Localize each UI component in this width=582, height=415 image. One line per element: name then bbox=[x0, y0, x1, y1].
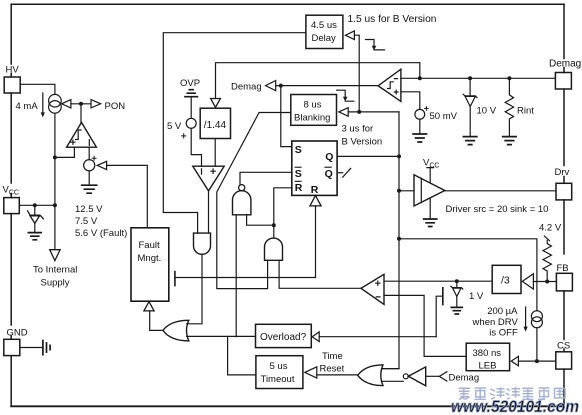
voltage source V1 12.5V/7.5V/5.6V bbox=[84, 160, 95, 171]
ground below V1 bbox=[82, 185, 97, 193]
svg-text:OVP: OVP bbox=[180, 78, 200, 89]
resistor R2 FB pullup with 4.2V tick bbox=[544, 236, 549, 241]
pin FB bbox=[556, 273, 572, 291]
AND gate A1 (pointing down) bbox=[194, 233, 211, 254]
wire A2 right input from CS comparator output bbox=[279, 260, 361, 288]
svg-text:Supply: Supply bbox=[41, 277, 70, 288]
svg-text:www.520101.com: www.520101.com bbox=[451, 398, 579, 415]
OR gate O1 (mirrored, apex left) bbox=[163, 320, 189, 341]
ground below D2 bbox=[463, 137, 476, 145]
pin VCC bbox=[4, 198, 19, 214]
zener D2 10V on demag pin bbox=[469, 78, 471, 96]
wire A2 output to Rbar node bbox=[273, 225, 275, 238]
wire Demag node to /1.44 input bbox=[216, 63, 420, 99]
wire comparator plus input tap bbox=[55, 147, 75, 157]
bar terminal on fault bus bbox=[174, 272, 176, 286]
triangle LEB input bbox=[511, 356, 518, 365]
svg-text:/1.44: /1.44 bbox=[204, 120, 227, 131]
svg-text:PON: PON bbox=[105, 101, 126, 112]
wire U2 output to A1 input bbox=[208, 191, 210, 233]
svg-text:4 mA: 4 mA bbox=[16, 101, 39, 112]
triangle delay input bbox=[345, 31, 354, 40]
svg-text:8 us: 8 us bbox=[304, 100, 322, 111]
ground at GND pin (rotated) bbox=[20, 347, 43, 349]
wire 200uA source to CS wire bbox=[536, 328, 538, 362]
wire overload input from sense bar bbox=[319, 336, 436, 338]
wire O2 lower input from NOT gate bbox=[382, 380, 404, 382]
resistor Rint bbox=[505, 78, 513, 136]
wire OR1 output to fault input bbox=[150, 311, 163, 331]
svg-text:Q: Q bbox=[325, 151, 333, 163]
box 4.5 us Delay bbox=[306, 15, 343, 48]
op-amp U1 VCC management comparator bbox=[67, 122, 97, 147]
wire timeout output to overload net bbox=[228, 336, 256, 375]
box SR latch bbox=[292, 141, 337, 195]
svg-text:Demag: Demag bbox=[231, 82, 262, 93]
falling edge icon near delay bbox=[366, 40, 385, 50]
wire N1 left input down to overload net bbox=[235, 215, 237, 337]
ground below D1 bbox=[28, 233, 41, 240]
svg-text:Time: Time bbox=[322, 351, 343, 362]
triangle latch R input bbox=[310, 196, 321, 206]
triangle /3 input bbox=[522, 274, 533, 289]
voltage source V2 5V bbox=[186, 118, 196, 128]
wire blanking input from Q line bbox=[348, 111, 399, 113]
wire U4 plus input from /3 output bbox=[384, 280, 492, 282]
wire V1 to ground bbox=[88, 171, 90, 185]
wire OVP ground to 5V source bbox=[190, 97, 192, 119]
svg-text:S: S bbox=[295, 168, 302, 180]
box Fault Mngt bbox=[131, 228, 169, 301]
triangle PON output bbox=[91, 100, 101, 108]
wire delay input from Q line bbox=[354, 35, 359, 112]
triangle internal Demag signal bbox=[266, 81, 276, 91]
wire PON node bbox=[71, 103, 91, 105]
svg-text:/3: /3 bbox=[501, 275, 510, 287]
triangle V1 select input bbox=[97, 161, 106, 169]
watermark chinese characters bbox=[459, 387, 566, 399]
svg-text:B Version: B Version bbox=[342, 137, 383, 148]
current source I2 200uA (two circles) bbox=[531, 311, 542, 322]
zener D3 1V bbox=[451, 286, 463, 289]
wire NOT input bbox=[426, 375, 440, 377]
pin CS bbox=[556, 352, 572, 369]
svg-text:Driver src = 20 sink = 10: Driver src = 20 sink = 10 bbox=[446, 204, 549, 215]
triangle Fault Mngt bottom input bbox=[144, 302, 154, 311]
svg-text:GND: GND bbox=[7, 328, 28, 339]
svg-text:Fault: Fault bbox=[139, 240, 160, 251]
svg-text:Demag: Demag bbox=[549, 59, 581, 70]
svg-text:To Internal: To Internal bbox=[33, 264, 77, 275]
pin GND bbox=[4, 339, 20, 355]
wire O2 upper input from Q line bbox=[382, 368, 400, 370]
wire OR2 output to timeout input bbox=[317, 374, 358, 376]
box 380 ns LEB bbox=[466, 343, 509, 371]
pin Drv bbox=[556, 183, 572, 200]
svg-text:5.6 V (Fault): 5.6 V (Fault) bbox=[75, 228, 127, 239]
svg-text:4.2 V: 4.2 V bbox=[539, 222, 562, 233]
box Overload? bbox=[256, 324, 312, 347]
svg-text:R: R bbox=[295, 182, 303, 194]
VCC tick above driver bbox=[427, 168, 434, 183]
ground above 5V reference (OVP) bbox=[185, 90, 197, 97]
svg-text:380 ns: 380 ns bbox=[473, 348, 502, 359]
voltage source V3 50 mV bbox=[415, 109, 425, 119]
wire driver to ground bbox=[429, 198, 431, 219]
svg-text:FB: FB bbox=[557, 263, 569, 274]
current source I1 4 mA (two circles) bbox=[49, 94, 62, 107]
arrow annotation 200uA direction bbox=[525, 307, 527, 327]
pin HV bbox=[4, 77, 20, 93]
wire U4 minus input from LEB output bbox=[384, 295, 466, 356]
triangle overload input bbox=[312, 332, 319, 342]
wire U3 output to internal demag node bbox=[276, 85, 378, 87]
NAND gate N1 (pointing up, bubble on top) bbox=[233, 191, 251, 215]
triangle timeout input bbox=[305, 367, 317, 378]
op-amp U4 current sense comparator (pointing left) bbox=[361, 274, 384, 304]
AND gate A2 (pointing up) bbox=[265, 238, 283, 260]
zener D1 on VCC bbox=[34, 205, 36, 215]
svg-text:CS: CS bbox=[557, 341, 570, 352]
falling edge icon near blanking bbox=[337, 90, 354, 101]
bar terminal near 1V node bbox=[442, 288, 444, 305]
ground below 50mV bbox=[413, 134, 426, 142]
svg-text:Mngt.: Mngt. bbox=[138, 253, 162, 264]
NOT gate (demag, pointing left) bbox=[403, 374, 408, 379]
svg-text:R: R bbox=[311, 184, 319, 196]
wire A1 output to OR1 input bbox=[187, 254, 202, 323]
wire 1V reference branch bbox=[456, 281, 458, 287]
wire Q line to driver input bbox=[399, 190, 414, 192]
ground below Rint bbox=[503, 137, 516, 145]
svg-text:Blanking: Blanking bbox=[294, 113, 330, 124]
box /3 divider bbox=[492, 265, 521, 293]
wire PON node to comparator output bbox=[80, 104, 82, 123]
wire sense bar to overload bbox=[436, 296, 443, 337]
svg-text:is OFF: is OFF bbox=[489, 327, 518, 338]
wire 50mV to ground bbox=[419, 119, 421, 134]
triangle blanking input bbox=[339, 108, 348, 117]
box 5 us Timeout bbox=[256, 356, 303, 389]
op-amp U2 OVP comparator bbox=[193, 166, 224, 191]
wire fault level select to Fault Mngt box bbox=[107, 165, 148, 227]
latch pin labels bbox=[295, 144, 334, 196]
arrow demag bottom bbox=[439, 372, 447, 381]
svg-text:200 µA: 200 µA bbox=[487, 306, 518, 317]
svg-text:10 V: 10 V bbox=[477, 105, 497, 116]
ground below D3 bbox=[451, 307, 462, 314]
wire /1.44 to U2 input bbox=[214, 139, 216, 167]
svg-text:Overload?: Overload? bbox=[260, 332, 307, 343]
OR gate O2 (mirrored, apex left) bbox=[358, 365, 383, 386]
pin Demag bbox=[555, 73, 571, 90]
box /1.44 divider bbox=[200, 108, 230, 138]
wire U3 minus input to Demag pin bbox=[401, 77, 556, 79]
overlines for Sbar Qbar Rbar bbox=[295, 167, 332, 181]
wire startup source output down to internal supply bbox=[54, 113, 56, 250]
svg-text:4.5 us: 4.5 us bbox=[311, 20, 337, 31]
wire VCC pin to zener and startup rail bbox=[19, 204, 55, 206]
wire HV pin to startup current source bbox=[20, 84, 55, 94]
svg-text:7.5 V: 7.5 V bbox=[75, 216, 98, 227]
svg-text:Q: Q bbox=[325, 168, 333, 180]
wire N1 right input from Rbar node bbox=[247, 215, 274, 225]
Q feed line (vertical bus from blanking node to timeout OR) bbox=[382, 112, 399, 369]
wire latch Q output to driver line bbox=[337, 155, 399, 157]
svg-text:12.5 V: 12.5 V bbox=[75, 204, 103, 215]
svg-text:S: S bbox=[295, 144, 302, 156]
wire 200uA control from Q line bbox=[399, 239, 537, 311]
svg-text:when DRV: when DRV bbox=[472, 317, 519, 328]
wire latch Rbar input from AND2 bbox=[274, 188, 292, 225]
wire 5V to OVP comparator bbox=[191, 128, 201, 166]
wire U1 minus input to 12.5V reference bbox=[88, 147, 90, 159]
box 8 us Blanking bbox=[291, 95, 337, 126]
wire delay output to AND1 input bbox=[163, 33, 306, 233]
svg-text:Drv: Drv bbox=[555, 167, 570, 178]
arrow annotation 4 mA direction bbox=[42, 93, 44, 113]
svg-text:3 us for: 3 us for bbox=[342, 124, 374, 135]
wire driver output to Drv pin bbox=[445, 190, 556, 192]
wire demag node down to latch S input bbox=[281, 86, 292, 147]
svg-text:Rint: Rint bbox=[517, 105, 534, 116]
wire latch Qbar output with switch slash bbox=[337, 172, 343, 174]
wire FB pin to /3 input bbox=[533, 281, 556, 283]
wire U3 plus input to 50mV source bbox=[401, 92, 420, 110]
triangle arrow To Internal Supply bbox=[50, 250, 60, 261]
wire latch Sbar input from NAND1 bbox=[240, 172, 292, 184]
wire latch R from fault bus bbox=[175, 206, 316, 278]
op-amp U3 demag comparator bbox=[378, 69, 401, 101]
wire CS pin to LEB bbox=[518, 360, 555, 362]
svg-text:1.5 us for B Version: 1.5 us for B Version bbox=[348, 14, 437, 25]
triangle source control input bbox=[62, 100, 71, 108]
wire O1 lower input to Overload box bbox=[187, 335, 256, 337]
svg-text:Timeout: Timeout bbox=[261, 374, 295, 385]
ground below driver bbox=[424, 219, 437, 227]
svg-text:50 mV: 50 mV bbox=[430, 111, 458, 122]
svg-text:Delay: Delay bbox=[312, 33, 337, 44]
triangle input above /1.44 bbox=[211, 99, 221, 108]
driver amp U5 bbox=[414, 175, 445, 206]
wire blanking output diagonal to AND2 input bbox=[217, 113, 291, 289]
svg-text:Reset: Reset bbox=[320, 364, 345, 375]
svg-text:HV: HV bbox=[6, 65, 20, 76]
svg-text:1 V: 1 V bbox=[469, 291, 484, 302]
svg-text:Demag: Demag bbox=[449, 372, 480, 383]
svg-text:LEB: LEB bbox=[479, 361, 497, 372]
svg-text:5 us: 5 us bbox=[270, 361, 288, 372]
svg-text:5 V: 5 V bbox=[167, 121, 182, 132]
